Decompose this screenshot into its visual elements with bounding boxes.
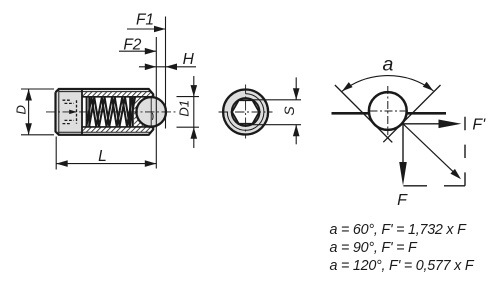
svg-text:a = 60°, F' = 1,732 x F: a = 60°, F' = 1,732 x F xyxy=(330,222,468,238)
svg-text:D1: D1 xyxy=(177,100,192,117)
svg-text:a = 90°, F' = F: a = 90°, F' = F xyxy=(330,240,418,256)
svg-text:a: a xyxy=(382,54,393,76)
svg-text:D: D xyxy=(14,105,29,114)
svg-text:F2: F2 xyxy=(123,36,141,53)
svg-text:F1: F1 xyxy=(136,11,154,28)
svg-text:L: L xyxy=(98,148,107,165)
svg-text:a = 120°, F' = 0,577 x F: a = 120°, F' = 0,577 x F xyxy=(330,258,475,274)
svg-text:F: F xyxy=(397,192,408,209)
svg-text:H: H xyxy=(183,51,195,68)
svg-text:S: S xyxy=(281,106,297,116)
svg-text:F': F' xyxy=(472,117,486,134)
